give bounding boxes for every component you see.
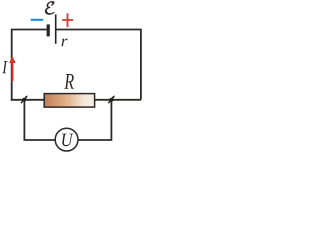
internal resistance label r [62,39,68,47]
junction dot left [22,98,26,102]
wire: bottom horizontal through resistor R [11,99,141,101]
resistor R box [44,94,94,108]
battery negative plate (short thick) [47,24,50,36]
EMF label script-E [45,1,55,14]
minus sign (blue) [31,19,44,21]
battery positive plate (long thin) [55,14,57,43]
junction dot right [109,98,113,102]
wire: top segment from battery positive plate, down right side [56,30,141,100]
sliding contact arrow right [108,95,115,103]
voltmeter circle [55,128,78,151]
current label I [2,61,7,73]
plus sign (red) [62,13,73,27]
wire: voltmeter branch right drop [78,100,111,140]
voltmeter label U [62,134,73,147]
current arrow (red) on left wire [9,56,16,81]
sliding contact arrow left [21,95,28,103]
resistor label R [64,74,74,89]
wire: voltmeter branch left drop [24,100,55,140]
wire: left side and top-left segment to battery negative plate [12,30,47,101]
